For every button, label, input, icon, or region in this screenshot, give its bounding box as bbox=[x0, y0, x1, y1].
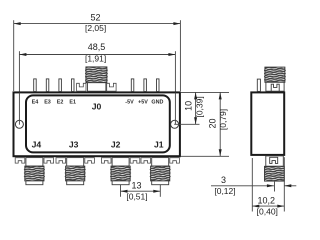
svg-text:[0,39]: [0,39] bbox=[194, 96, 204, 117]
clip left of J2 bbox=[101, 158, 111, 163]
pin +5V bbox=[144, 79, 147, 92]
SMA connector J4 cap bbox=[26, 181, 43, 185]
extension line 52 right bbox=[179, 20, 181, 91]
pin E4 bbox=[34, 79, 37, 92]
dimension 20 vertical bbox=[219, 92, 222, 156]
SMA connector J4 threads bbox=[24, 166, 45, 181]
tick body bottom bbox=[181, 155, 229, 157]
side view top pin bbox=[257, 79, 260, 91]
svg-text:J4: J4 bbox=[32, 139, 42, 149]
dimension 10 vertical bbox=[194, 92, 197, 124]
SMA connector J3 threads bbox=[65, 166, 86, 181]
dimension 13 bbox=[121, 185, 161, 197]
mounting hole right bbox=[171, 120, 179, 128]
clip right of J4 bbox=[44, 158, 54, 163]
pin GND bbox=[157, 79, 160, 92]
SMA connector J3 cap bbox=[67, 181, 84, 185]
extension line 48,5 left bbox=[18, 51, 20, 124]
clip left of J3 bbox=[56, 158, 66, 163]
svg-text:48,5: 48,5 bbox=[88, 42, 106, 52]
side view bottom clip bbox=[270, 157, 278, 163]
side view bottom base bbox=[266, 156, 284, 166]
dimension 3 bbox=[211, 157, 296, 211]
svg-text:[0,79]: [0,79] bbox=[218, 109, 228, 130]
side view top clip bbox=[271, 84, 279, 91]
extension line 48,5 left over body bbox=[18, 92, 20, 124]
SMA connector J1 threads bbox=[150, 166, 171, 181]
pin E1 bbox=[72, 79, 75, 92]
extension line 52 left bbox=[13, 20, 15, 91]
svg-text:10: 10 bbox=[184, 101, 194, 111]
svg-text:E2: E2 bbox=[57, 100, 64, 106]
SMA connector J2 cap bbox=[112, 181, 129, 185]
svg-text:[0,12]: [0,12] bbox=[214, 186, 235, 196]
svg-text:E3: E3 bbox=[44, 100, 51, 106]
clip right of J3 bbox=[85, 158, 95, 163]
side view body bbox=[251, 92, 284, 154]
SMA connector J1 cap bbox=[152, 181, 169, 185]
clip left of J0 bbox=[77, 83, 86, 91]
clip left of J4 bbox=[15, 158, 25, 163]
svg-text:J2: J2 bbox=[111, 139, 121, 149]
svg-text:52: 52 bbox=[90, 13, 100, 23]
svg-text:13: 13 bbox=[131, 180, 141, 190]
SMA connector J2 base bbox=[112, 158, 129, 167]
svg-text:[0,40]: [0,40] bbox=[257, 206, 278, 216]
side view bottom threads bbox=[265, 166, 285, 181]
SMA connector J2 threads bbox=[110, 166, 131, 181]
dimension 48,5 bbox=[19, 51, 175, 124]
clip left of J1 bbox=[141, 158, 151, 163]
clip right of J0 bbox=[107, 83, 116, 91]
svg-text:J0: J0 bbox=[92, 101, 102, 111]
svg-text:J3: J3 bbox=[69, 139, 79, 149]
dimension 10,2 bbox=[252, 158, 284, 212]
front view inner lid bbox=[26, 95, 170, 152]
svg-text:20: 20 bbox=[207, 118, 217, 128]
SMA connector J1 base bbox=[152, 158, 169, 167]
svg-text:+5V: +5V bbox=[138, 99, 148, 105]
front view outer body bbox=[14, 92, 180, 156]
clip right of J2 bbox=[130, 158, 140, 163]
side view top connector threads bbox=[264, 67, 286, 82]
svg-text:J1: J1 bbox=[154, 139, 164, 149]
SMA connector J4 base bbox=[26, 158, 43, 167]
pin E3 bbox=[46, 79, 49, 92]
svg-text:[0,51]: [0,51] bbox=[126, 192, 147, 202]
svg-text:GND: GND bbox=[151, 99, 163, 105]
side view top connector collar bbox=[266, 82, 284, 91]
svg-text:3: 3 bbox=[221, 175, 226, 185]
clip right of J1 bbox=[170, 158, 180, 163]
svg-text:10,2: 10,2 bbox=[258, 196, 276, 206]
connector J0 threads bbox=[85, 67, 108, 83]
svg-text:E4: E4 bbox=[32, 100, 39, 106]
connector J0 collar bbox=[88, 83, 106, 92]
svg-text:[2,05]: [2,05] bbox=[85, 23, 106, 33]
svg-text:[1,91]: [1,91] bbox=[85, 54, 106, 64]
dimension 52 bbox=[14, 20, 181, 91]
SMA connector J3 base bbox=[67, 158, 84, 167]
tick hole centre bbox=[175, 123, 200, 125]
svg-text:-5V: -5V bbox=[125, 99, 134, 105]
extension line body face bbox=[283, 157, 285, 211]
extension line 48,5 right bbox=[174, 51, 176, 124]
mounting hole left bbox=[15, 120, 23, 128]
svg-text:E1: E1 bbox=[69, 100, 76, 106]
pin E2 bbox=[59, 79, 62, 92]
tick body top bbox=[181, 91, 229, 93]
extension line 48,5 right over body bbox=[174, 92, 176, 124]
hole centre dot right bbox=[174, 124, 175, 125]
hole centre dot left bbox=[19, 124, 20, 125]
pin -5V bbox=[131, 79, 134, 92]
connector centre line bbox=[274, 182, 276, 192]
